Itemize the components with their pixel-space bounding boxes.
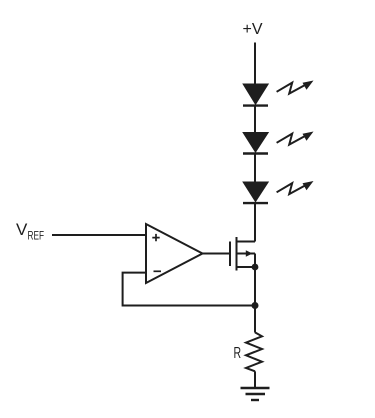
wire D2-D3: [254, 154, 256, 184]
svg-text:R: R: [234, 345, 242, 362]
resistor R: [234, 332, 263, 371]
svg-text:REF: REF: [28, 229, 45, 243]
svg-text:+V: +V: [243, 21, 263, 38]
junction feedback node: [252, 302, 259, 309]
LED D2 light arrow: [277, 132, 314, 145]
node VREF: [16, 220, 44, 243]
LED D3: [243, 183, 268, 204]
wire op-amp output to gate: [203, 253, 230, 255]
op-amp U1: [146, 224, 203, 283]
junction source node: [252, 264, 259, 271]
wire D3 to drain: [254, 203, 256, 241]
svg-text:V: V: [16, 220, 28, 239]
node +V: [243, 21, 263, 38]
wire +V lead: [254, 43, 256, 86]
transistor Q1 (N-MOSFET): [230, 237, 255, 271]
wire D1-D2: [254, 106, 256, 134]
wire VREF to op-amp + input: [52, 234, 146, 236]
ground: [241, 388, 270, 400]
LED D1: [243, 85, 268, 106]
LED D1 light arrow: [277, 81, 314, 94]
LED D3 light arrow: [277, 181, 314, 194]
wire source to feedback node: [254, 267, 256, 333]
LED D2: [243, 133, 268, 154]
wire resistor to ground: [254, 371, 256, 388]
wire feedback to op-amp inverting input: [123, 273, 255, 306]
